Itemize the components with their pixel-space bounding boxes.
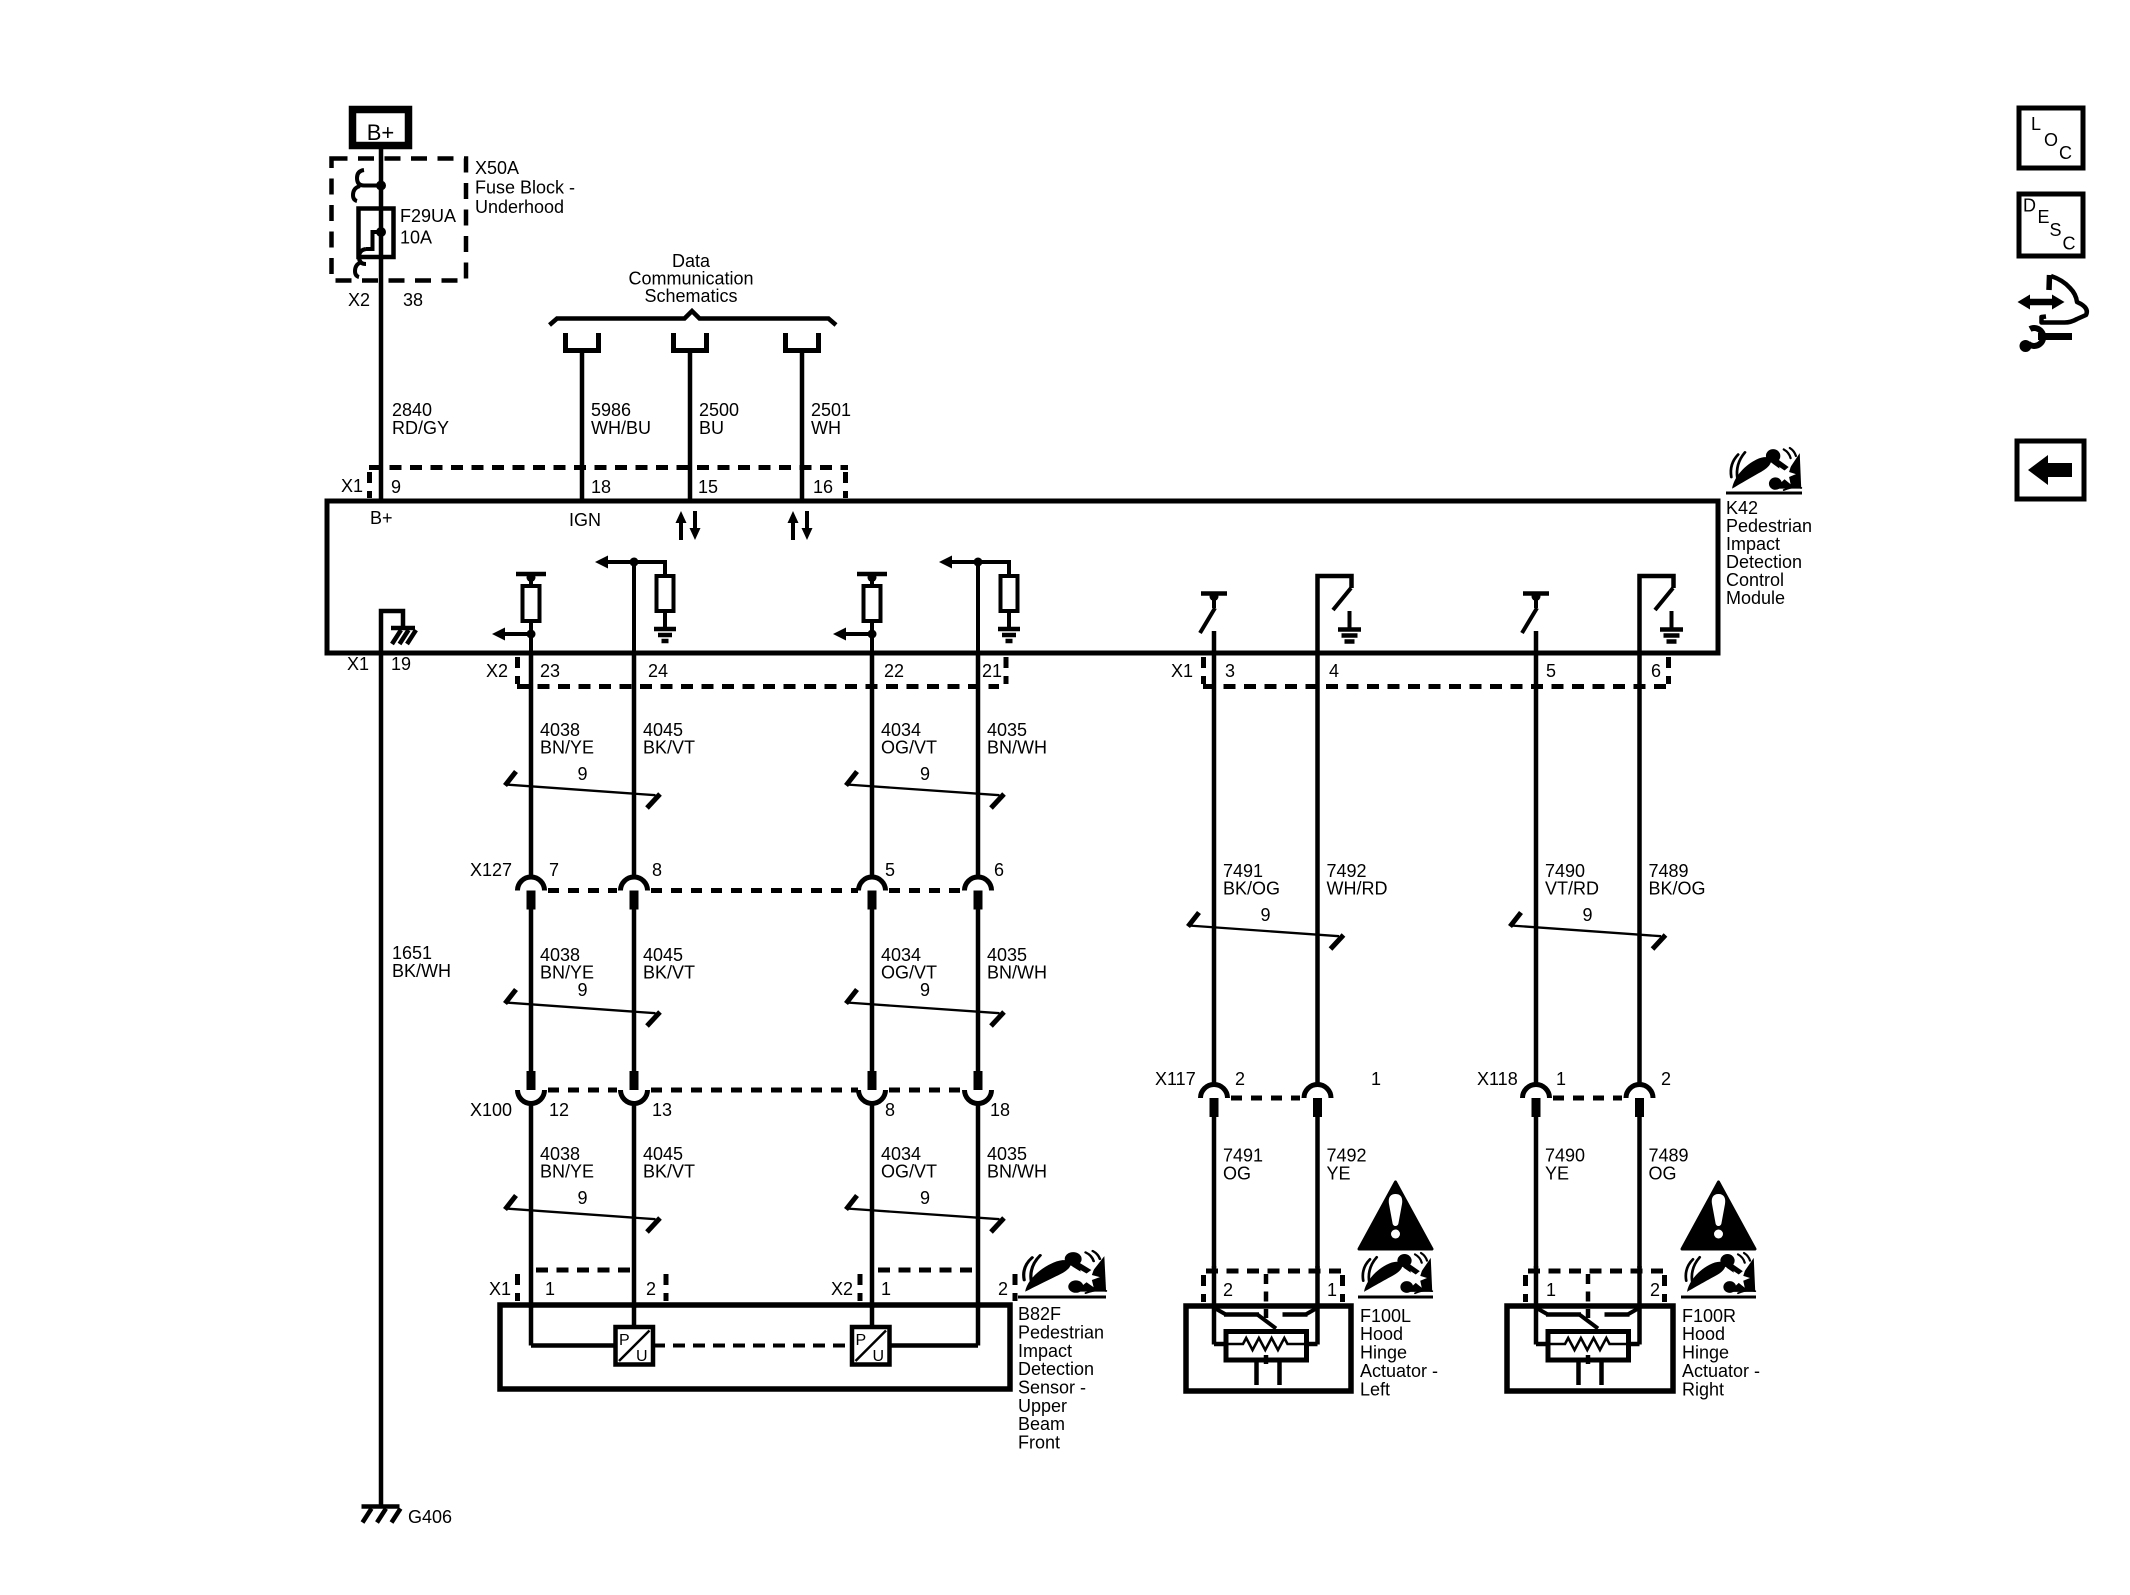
svg-text:9: 9 [1260, 905, 1270, 925]
internal resistor to ground pin 24 [632, 562, 636, 655]
svg-text:2: 2 [998, 1279, 1008, 1299]
F100R pedestrian impact icon [1686, 1253, 1755, 1293]
sensor wires: module to X127 [529, 653, 534, 877]
svg-text:5: 5 [885, 860, 895, 880]
svg-text:8: 8 [885, 1100, 895, 1120]
svg-text:7492: 7492 [1327, 1146, 1367, 1166]
svg-text:2: 2 [1223, 1280, 1233, 1300]
svg-text:X1: X1 [347, 654, 369, 674]
actuator wires: X117/X118 to actuators [1212, 1117, 1217, 1268]
svg-text:Hood: Hood [1360, 1324, 1403, 1344]
svg-text:1: 1 [1371, 1069, 1381, 1089]
svg-text:5: 5 [1546, 661, 1556, 681]
svg-text:P: P [619, 1332, 630, 1349]
svg-text:BK/VT: BK/VT [643, 1162, 695, 1182]
svg-text:X2: X2 [348, 290, 370, 310]
internal switch to ground pin 6 [1640, 576, 1674, 655]
svg-text:Upper: Upper [1018, 1396, 1067, 1416]
svg-text:9: 9 [920, 764, 930, 784]
internal switch pin 3 [1201, 591, 1227, 596]
svg-text:U: U [636, 1348, 648, 1365]
svg-text:9: 9 [391, 477, 401, 497]
svg-text:7490: 7490 [1545, 1146, 1585, 1166]
svg-text:4: 4 [1329, 661, 1339, 681]
svg-text:10A: 10A [400, 228, 432, 248]
connector X1 dashed line (module top) [369, 465, 848, 470]
svg-text:7: 7 [549, 860, 559, 880]
svg-text:G406: G406 [408, 1507, 452, 1527]
module K42 box [327, 501, 1718, 653]
svg-text:Detection: Detection [1018, 1359, 1094, 1379]
svg-text:P: P [856, 1332, 867, 1349]
svg-text:2: 2 [1650, 1280, 1660, 1300]
svg-text:BU: BU [699, 418, 724, 438]
svg-text:Hinge: Hinge [1682, 1343, 1729, 1363]
sensor wires: X127 to X100 [529, 909, 534, 1071]
svg-text:C: C [2059, 143, 2072, 163]
power symbol B+ [353, 110, 409, 146]
svg-text:2: 2 [1235, 1069, 1245, 1089]
actuator wires: module to X117/X118 [1212, 653, 1217, 1085]
svg-text:9: 9 [577, 980, 587, 1000]
svg-text:22: 22 [884, 661, 904, 681]
svg-text:21: 21 [982, 661, 1002, 681]
svg-text:X2: X2 [831, 1279, 853, 1299]
svg-text:18: 18 [591, 477, 611, 497]
svg-text:6: 6 [994, 860, 1004, 880]
svg-text:9: 9 [577, 1188, 587, 1208]
svg-text:X117: X117 [1155, 1069, 1196, 1089]
svg-text:6: 6 [1651, 661, 1661, 681]
svg-text:F100R: F100R [1682, 1306, 1736, 1326]
svg-text:12: 12 [549, 1100, 569, 1120]
ground G406 [362, 1504, 400, 1509]
off-page connector for wire 2500 [671, 333, 676, 350]
F100L warning triangle [1359, 1182, 1432, 1249]
internal switch pin 5 [1523, 591, 1549, 596]
wire from B+ to fuse block [379, 147, 384, 501]
svg-text:OG: OG [1649, 1164, 1677, 1184]
svg-text:B+: B+ [370, 508, 393, 528]
svg-text:WH: WH [811, 418, 841, 438]
svg-text:7489: 7489 [1649, 1146, 1689, 1166]
svg-text:8: 8 [652, 860, 662, 880]
svg-text:1: 1 [1546, 1280, 1556, 1300]
svg-text:Impact: Impact [1726, 534, 1780, 554]
svg-text:RD/GY: RD/GY [392, 418, 449, 438]
svg-text:BK/VT: BK/VT [643, 963, 695, 983]
svg-text:Sensor -: Sensor - [1018, 1378, 1086, 1398]
svg-text:X1: X1 [341, 476, 363, 496]
svg-text:X118: X118 [1477, 1069, 1518, 1089]
svg-text:Actuator -: Actuator - [1682, 1361, 1760, 1381]
internal pull-up resistor pin 23 [516, 572, 546, 577]
svg-text:Impact: Impact [1018, 1341, 1072, 1361]
svg-text:9: 9 [920, 1188, 930, 1208]
fuse clip upper [357, 170, 381, 186]
svg-text:9: 9 [920, 980, 930, 1000]
svg-text:Beam: Beam [1018, 1414, 1065, 1434]
svg-text:X127: X127 [470, 860, 512, 880]
svg-text:BK/VT: BK/VT [643, 738, 695, 758]
svg-text:BN/WH: BN/WH [987, 738, 1047, 758]
svg-text:K42: K42 [1726, 498, 1758, 518]
svg-text:2840: 2840 [392, 400, 432, 420]
svg-text:3: 3 [1225, 661, 1235, 681]
off-page connector for wire 2501 [783, 333, 788, 350]
svg-text:O: O [2044, 130, 2058, 150]
internal pull-up resistor pin 22 [857, 572, 887, 577]
svg-text:IGN: IGN [569, 510, 601, 530]
B82F internal wiring + P/U units [529, 1305, 534, 1346]
wire 1651 BK/WH to G406 [379, 653, 384, 1505]
svg-text:D: D [2023, 196, 2036, 216]
svg-text:9: 9 [577, 764, 587, 784]
F100R connector bracket [1523, 1275, 1528, 1302]
DESC button [2019, 194, 2083, 256]
svg-text:OG: OG [1223, 1164, 1251, 1184]
svg-text:BK/WH: BK/WH [392, 961, 451, 981]
svg-text:Schematics: Schematics [644, 286, 737, 306]
svg-text:Underhood: Underhood [475, 197, 564, 217]
internal ground pin 19 [381, 611, 403, 655]
internal resistor to ground pin 21 [976, 562, 980, 655]
wire 2501 WH [800, 351, 805, 501]
svg-text:Hood: Hood [1682, 1324, 1725, 1344]
svg-text:1: 1 [881, 1279, 891, 1299]
svg-text:9: 9 [1582, 905, 1592, 925]
svg-text:X50A: X50A [475, 158, 519, 178]
svg-text:BK/OG: BK/OG [1649, 879, 1706, 899]
svg-text:1: 1 [1556, 1069, 1566, 1089]
svg-text:2: 2 [646, 1279, 656, 1299]
svg-text:VT/RD: VT/RD [1545, 879, 1599, 899]
F100L connector bracket [1201, 1275, 1206, 1302]
svg-text:Front: Front [1018, 1433, 1060, 1453]
fuse block X50A dashed outline [332, 159, 467, 281]
svg-text:2500: 2500 [699, 400, 739, 420]
internal switch to ground pin 4 [1318, 576, 1352, 655]
svg-text:1: 1 [545, 1279, 555, 1299]
actuator F100L squib [1186, 1306, 1351, 1391]
svg-text:Hinge: Hinge [1360, 1343, 1407, 1363]
svg-text:38: 38 [403, 290, 423, 310]
svg-text:13: 13 [652, 1100, 672, 1120]
svg-text:1: 1 [1327, 1280, 1337, 1300]
svg-text:1651: 1651 [392, 943, 432, 963]
LOC button [2019, 108, 2083, 168]
svg-text:7491: 7491 [1223, 1146, 1263, 1166]
svg-text:YE: YE [1545, 1164, 1569, 1184]
back button [2017, 441, 2084, 499]
wire 2500 BU [688, 351, 693, 501]
F100L pedestrian impact icon [1363, 1253, 1432, 1293]
svg-text:B+: B+ [367, 120, 395, 145]
svg-text:18: 18 [990, 1100, 1010, 1120]
svg-text:F29UA: F29UA [400, 206, 456, 226]
off-page connector for wire 5986 [563, 333, 568, 350]
svg-text:E: E [2038, 207, 2050, 227]
svg-text:U: U [873, 1348, 885, 1365]
svg-text:WH/BU: WH/BU [591, 418, 651, 438]
wire 5986 WH/BU [580, 351, 585, 501]
sensor B82F box [500, 1305, 1010, 1389]
svg-text:2: 2 [1661, 1069, 1671, 1089]
svg-text:BN/YE: BN/YE [540, 1162, 594, 1182]
svg-text:S: S [2050, 220, 2062, 240]
svg-text:23: 23 [540, 661, 560, 681]
svg-text:BN/YE: BN/YE [540, 738, 594, 758]
svg-text:16: 16 [813, 477, 833, 497]
fuse clip lower [359, 249, 366, 264]
svg-text:BN/WH: BN/WH [987, 1162, 1047, 1182]
sensor wires: X100 to B82F [529, 1102, 534, 1308]
svg-text:X2: X2 [486, 661, 508, 681]
fuse F29UA element [359, 209, 394, 258]
svg-text:BK/OG: BK/OG [1223, 879, 1280, 899]
svg-text:X100: X100 [470, 1100, 512, 1120]
harness repair icon (arrows + wrench) [2026, 299, 2057, 306]
B82F pedestrian impact icon [1024, 1251, 1106, 1293]
svg-text:Left: Left [1360, 1380, 1390, 1400]
svg-text:24: 24 [648, 661, 668, 681]
svg-text:BN/WH: BN/WH [987, 963, 1047, 983]
svg-text:Right: Right [1682, 1380, 1724, 1400]
svg-text:15: 15 [698, 477, 718, 497]
F100R warning triangle [1682, 1182, 1755, 1249]
svg-text:Fuse Block -: Fuse Block - [475, 178, 575, 198]
svg-text:2501: 2501 [811, 400, 851, 420]
svg-text:YE: YE [1327, 1164, 1351, 1184]
svg-text:WH/RD: WH/RD [1327, 879, 1388, 899]
svg-text:5986: 5986 [591, 400, 631, 420]
svg-text:F100L: F100L [1360, 1306, 1411, 1326]
svg-text:C: C [2063, 234, 2076, 254]
svg-text:B82F: B82F [1018, 1304, 1061, 1324]
svg-text:Pedestrian: Pedestrian [1726, 516, 1812, 536]
svg-text:Actuator -: Actuator - [1360, 1361, 1438, 1381]
svg-text:Module: Module [1726, 588, 1785, 608]
svg-text:L: L [2031, 114, 2041, 134]
svg-text:OG/VT: OG/VT [881, 1162, 937, 1182]
K42 pedestrian impact icon [1731, 448, 1801, 490]
bidirectional arrows pin 15 [679, 522, 683, 540]
svg-text:Control: Control [1726, 570, 1784, 590]
svg-text:X1: X1 [1171, 661, 1193, 681]
svg-text:Detection: Detection [1726, 552, 1802, 572]
brace [550, 311, 837, 325]
actuator F100R squib [1507, 1306, 1673, 1391]
svg-text:Pedestrian: Pedestrian [1018, 1323, 1104, 1343]
svg-text:19: 19 [391, 654, 411, 674]
svg-text:X1: X1 [489, 1279, 511, 1299]
svg-text:OG/VT: OG/VT [881, 738, 937, 758]
